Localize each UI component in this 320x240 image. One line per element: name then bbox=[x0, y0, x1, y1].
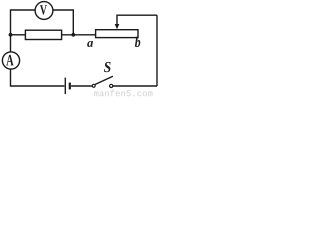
switch label S bbox=[104, 62, 111, 72]
terminal label b bbox=[135, 37, 140, 47]
wire: rheostat slider stem and top wire bbox=[117, 15, 157, 25]
wire: top-left corner and left vertical branch bbox=[11, 10, 36, 52]
switch S right contact bbox=[110, 84, 113, 87]
terminal label a bbox=[87, 41, 93, 47]
voltmeter V (circle) bbox=[35, 2, 53, 20]
wire: right vertical bbox=[156, 15, 158, 86]
resistor R (box in parallel with voltmeter) bbox=[25, 30, 61, 39]
wire: battery to switch bbox=[71, 85, 92, 87]
wire: resistor to rheostat terminal a bbox=[61, 34, 95, 36]
switch S blade bbox=[95, 76, 113, 84]
junction node (right) bbox=[71, 33, 75, 37]
junction node (left) bbox=[9, 33, 13, 37]
wire: below ammeter to bottom-left corner bbox=[11, 69, 65, 86]
ammeter A (circle) bbox=[2, 52, 19, 69]
voltmeter label V bbox=[40, 5, 47, 14]
watermark manfen5.com bbox=[94, 90, 153, 97]
rheostat slider arrowhead bbox=[115, 24, 120, 29]
wire: voltmeter right lead down to node bbox=[53, 10, 74, 34]
wire: switch to bottom-right corner bbox=[113, 85, 157, 87]
battery long plate bbox=[64, 78, 66, 95]
ammeter label A bbox=[6, 55, 13, 65]
battery short plate bbox=[69, 83, 71, 90]
wire: left node to resistor bbox=[11, 34, 26, 36]
rheostat body bbox=[96, 30, 138, 38]
switch S pivot contact bbox=[92, 84, 95, 87]
